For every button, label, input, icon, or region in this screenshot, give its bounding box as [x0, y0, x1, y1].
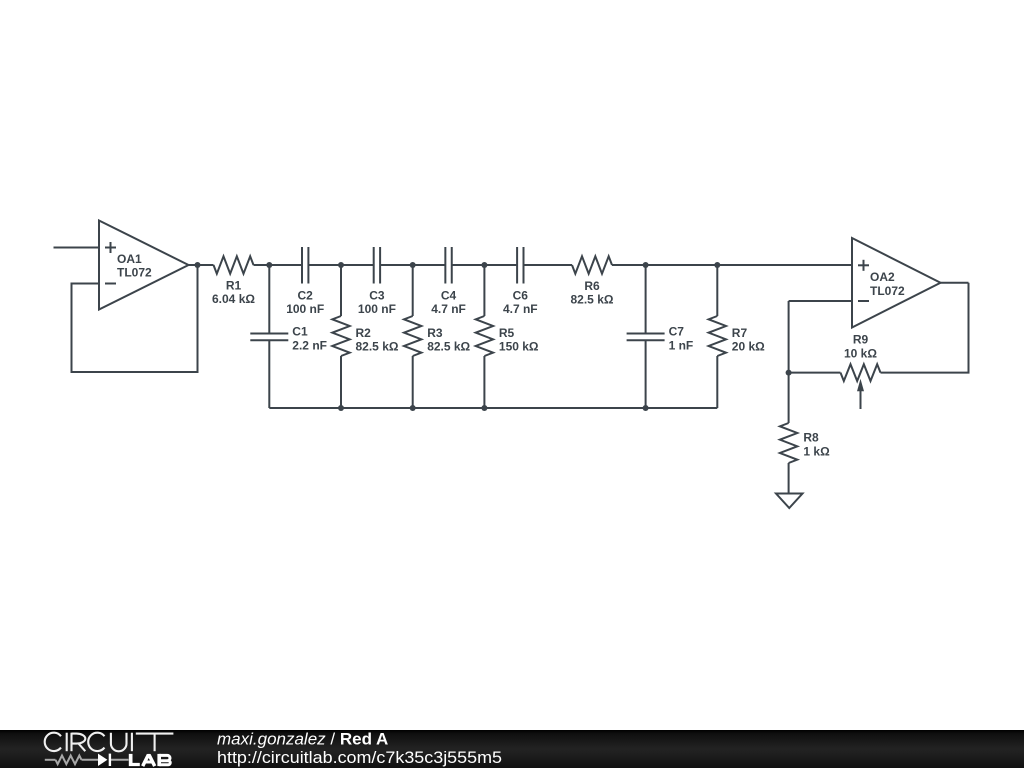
svg-text:R5: R5	[499, 326, 515, 340]
svg-text:1 nF: 1 nF	[669, 338, 694, 352]
svg-text:C2: C2	[298, 289, 314, 303]
svg-text:OA2: OA2	[870, 270, 895, 284]
svg-text:TL072: TL072	[117, 266, 152, 280]
svg-text:2.2 nF: 2.2 nF	[292, 338, 327, 352]
svg-text:4.7 nF: 4.7 nF	[503, 302, 538, 316]
svg-text:C7: C7	[669, 325, 685, 339]
svg-text:82.5 kΩ: 82.5 kΩ	[356, 340, 399, 354]
svg-text:6.04 kΩ: 6.04 kΩ	[212, 292, 255, 306]
svg-text:4.7 nF: 4.7 nF	[431, 302, 466, 316]
svg-text:R8: R8	[803, 430, 819, 444]
svg-text:maxi.gonzalez / Red A: maxi.gonzalez / Red A	[217, 729, 388, 748]
svg-text:20 kΩ: 20 kΩ	[732, 340, 765, 354]
svg-text:82.5 kΩ: 82.5 kΩ	[427, 340, 470, 354]
svg-text:R7: R7	[732, 326, 748, 340]
svg-text:100 nF: 100 nF	[286, 302, 324, 316]
svg-text:http://circuitlab.com/c7k35c3j: http://circuitlab.com/c7k35c3j555m5	[217, 748, 502, 767]
svg-text:82.5 kΩ: 82.5 kΩ	[571, 293, 614, 307]
svg-text:TL072: TL072	[870, 284, 905, 298]
svg-text:10 kΩ: 10 kΩ	[844, 347, 877, 361]
svg-text:C1: C1	[292, 325, 308, 339]
svg-text:R6: R6	[584, 279, 600, 293]
svg-text:R9: R9	[853, 333, 869, 347]
svg-text:C4: C4	[441, 289, 457, 303]
svg-text:C6: C6	[513, 289, 529, 303]
svg-text:R2: R2	[356, 326, 372, 340]
svg-text:C3: C3	[369, 289, 385, 303]
svg-text:OA1: OA1	[117, 252, 142, 266]
svg-text:100 nF: 100 nF	[358, 302, 396, 316]
svg-text:R1: R1	[226, 279, 242, 293]
svg-text:150 kΩ: 150 kΩ	[499, 340, 539, 354]
svg-text:R3: R3	[427, 326, 443, 340]
svg-text:1 kΩ: 1 kΩ	[803, 444, 830, 458]
